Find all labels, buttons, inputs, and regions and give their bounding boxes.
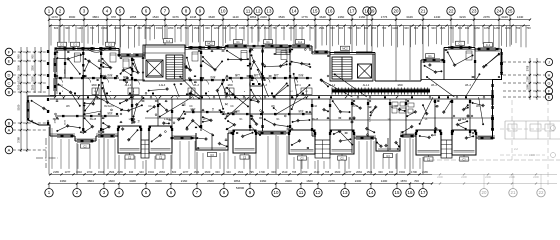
svg-text:1800: 1800 xyxy=(91,84,97,87)
svg-text:B: B xyxy=(8,121,11,126)
svg-text:1200: 1200 xyxy=(55,118,57,124)
svg-text:WL-3: WL-3 xyxy=(431,84,437,87)
svg-text:54800: 54800 xyxy=(236,186,245,190)
svg-text:2160: 2160 xyxy=(181,179,188,183)
svg-text:WC: WC xyxy=(476,106,480,108)
svg-text:23: 23 xyxy=(472,9,477,14)
svg-text:3468: 3468 xyxy=(129,179,136,183)
svg-text:1500: 1500 xyxy=(65,68,67,74)
svg-text:11: 11 xyxy=(246,9,251,14)
svg-text:1584: 1584 xyxy=(101,26,107,30)
svg-text:3300: 3300 xyxy=(32,65,35,71)
svg-text:2400: 2400 xyxy=(485,175,491,179)
svg-text:1500: 1500 xyxy=(32,76,35,82)
svg-text:700: 700 xyxy=(382,26,387,30)
svg-text:WL-3: WL-3 xyxy=(261,84,267,87)
svg-text:14: 14 xyxy=(292,9,297,14)
svg-text:2160: 2160 xyxy=(359,15,366,19)
svg-text:3460: 3460 xyxy=(260,179,267,183)
svg-text:21: 21 xyxy=(511,190,516,195)
svg-text:600: 600 xyxy=(378,170,383,174)
svg-text:1200: 1200 xyxy=(370,116,372,122)
svg-text:700: 700 xyxy=(257,26,262,30)
svg-text:2663: 2663 xyxy=(159,170,165,174)
svg-text:1470: 1470 xyxy=(51,15,58,19)
svg-text:C-1: C-1 xyxy=(166,40,171,43)
svg-text:12: 12 xyxy=(256,9,261,14)
svg-text:C-1: C-1 xyxy=(73,44,78,47)
svg-text:J: J xyxy=(548,61,550,65)
svg-text:1504: 1504 xyxy=(114,26,120,30)
svg-text:1377: 1377 xyxy=(65,170,71,174)
svg-text:1200: 1200 xyxy=(101,109,103,115)
svg-text:1504: 1504 xyxy=(109,170,115,174)
svg-text:2660: 2660 xyxy=(207,179,214,183)
svg-text:WL-3: WL-3 xyxy=(465,84,471,87)
svg-text:15: 15 xyxy=(313,9,318,14)
svg-text:2400: 2400 xyxy=(533,175,539,179)
svg-text:940: 940 xyxy=(129,170,134,174)
svg-text:CC: CC xyxy=(148,106,152,108)
svg-text:3864: 3864 xyxy=(92,15,99,19)
svg-text:3864: 3864 xyxy=(234,179,241,183)
svg-text:1377: 1377 xyxy=(346,170,352,174)
svg-text:1600: 1600 xyxy=(108,179,115,183)
svg-text:1500: 1500 xyxy=(290,66,292,72)
svg-text:1504: 1504 xyxy=(194,26,200,30)
svg-text:1504: 1504 xyxy=(399,170,405,174)
svg-text:900: 900 xyxy=(281,26,286,30)
svg-text:2400: 2400 xyxy=(437,175,443,179)
svg-text:2400: 2400 xyxy=(285,179,292,183)
svg-text:24: 24 xyxy=(497,9,502,14)
svg-text:1870: 1870 xyxy=(400,179,407,183)
svg-text:1700: 1700 xyxy=(87,170,93,174)
svg-text:1584: 1584 xyxy=(239,26,245,30)
svg-text:1560: 1560 xyxy=(526,84,529,90)
svg-text:2663: 2663 xyxy=(335,170,341,174)
svg-text:3600: 3600 xyxy=(69,15,76,19)
svg-text:PE-25: PE-25 xyxy=(349,119,356,121)
svg-text:3864: 3864 xyxy=(250,15,257,19)
svg-text:17: 17 xyxy=(421,190,426,195)
svg-text:客厅: 客厅 xyxy=(254,73,260,77)
svg-text:1776: 1776 xyxy=(381,15,388,19)
svg-text:2400: 2400 xyxy=(355,179,362,183)
svg-text:3300: 3300 xyxy=(16,65,20,71)
svg-text:1-AL2: 1-AL2 xyxy=(164,118,171,121)
svg-text:MC2: MC2 xyxy=(342,48,348,51)
svg-text:1140: 1140 xyxy=(77,26,83,30)
svg-text:840: 840 xyxy=(137,26,142,30)
svg-text:卧室: 卧室 xyxy=(298,73,304,77)
svg-text:客厅: 客厅 xyxy=(235,73,241,77)
svg-text:CC: CC xyxy=(189,106,193,108)
svg-text:3460: 3460 xyxy=(60,179,67,183)
svg-text:1504: 1504 xyxy=(156,26,162,30)
svg-text:21: 21 xyxy=(421,9,426,14)
svg-text:2868: 2868 xyxy=(130,15,137,19)
svg-text:C-2: C-2 xyxy=(60,44,65,47)
svg-text:2663: 2663 xyxy=(205,170,211,174)
svg-text:1504: 1504 xyxy=(367,170,373,174)
svg-text:A: A xyxy=(8,148,11,153)
svg-text:3648: 3648 xyxy=(208,15,215,19)
svg-text:450: 450 xyxy=(372,26,377,30)
svg-text:13: 13 xyxy=(343,190,348,195)
svg-text:WC: WC xyxy=(271,106,275,108)
svg-text:CC: CC xyxy=(394,106,398,108)
svg-text:11: 11 xyxy=(299,190,304,195)
svg-text:750: 750 xyxy=(347,26,352,30)
svg-text:AL1-2: AL1-2 xyxy=(363,84,370,87)
svg-text:940: 940 xyxy=(226,170,231,174)
svg-text:15: 15 xyxy=(395,190,400,195)
svg-text:2400: 2400 xyxy=(461,175,467,179)
svg-text:14: 14 xyxy=(369,190,374,195)
svg-text:厨房: 厨房 xyxy=(298,109,304,113)
svg-text:D: D xyxy=(8,73,11,78)
svg-text:1504: 1504 xyxy=(238,170,244,174)
svg-text:1610: 1610 xyxy=(282,170,288,174)
svg-text:2100: 2100 xyxy=(290,110,292,116)
svg-text:AP-1: AP-1 xyxy=(57,84,63,87)
svg-text:600: 600 xyxy=(414,26,419,30)
svg-text:A: A xyxy=(8,128,11,133)
svg-text:3648: 3648 xyxy=(319,15,326,19)
svg-text:900: 900 xyxy=(465,26,470,30)
svg-text:700: 700 xyxy=(526,26,531,30)
svg-text:2100: 2100 xyxy=(250,62,252,68)
svg-text:E: E xyxy=(8,59,11,64)
svg-text:1260: 1260 xyxy=(505,26,511,30)
svg-text:厨房: 厨房 xyxy=(107,111,113,115)
svg-text:795: 795 xyxy=(292,170,297,174)
svg-text:1540: 1540 xyxy=(152,15,159,19)
svg-text:1700: 1700 xyxy=(259,170,265,174)
svg-text:卧室: 卧室 xyxy=(210,75,216,79)
svg-text:1260: 1260 xyxy=(214,26,220,30)
svg-text:940: 940 xyxy=(139,170,144,174)
svg-text:2165: 2165 xyxy=(117,170,123,174)
svg-text:C-2: C-2 xyxy=(298,41,303,44)
svg-text:C: C xyxy=(8,81,11,86)
svg-text:22: 22 xyxy=(539,190,544,195)
svg-text:AL1-2: AL1-2 xyxy=(125,84,132,87)
svg-text:900: 900 xyxy=(65,26,70,30)
svg-text:600: 600 xyxy=(172,170,177,174)
svg-text:1700: 1700 xyxy=(411,170,417,174)
svg-text:1504: 1504 xyxy=(319,26,325,30)
svg-text:2400: 2400 xyxy=(509,175,515,179)
svg-text:G: G xyxy=(548,82,551,86)
svg-text:2160: 2160 xyxy=(526,76,529,82)
svg-text:600: 600 xyxy=(271,170,276,174)
svg-text:940: 940 xyxy=(389,170,394,174)
svg-text:900: 900 xyxy=(339,26,344,30)
svg-text:600: 600 xyxy=(215,170,220,174)
svg-text:700: 700 xyxy=(184,26,189,30)
svg-text:1500: 1500 xyxy=(101,72,103,78)
svg-text:BV-3x2.5: BV-3x2.5 xyxy=(104,106,114,108)
svg-text:2160: 2160 xyxy=(16,84,20,90)
svg-text:25: 25 xyxy=(508,9,513,14)
svg-text:1:100: 1:100 xyxy=(529,153,536,157)
svg-text:1377: 1377 xyxy=(183,170,189,174)
svg-text:1500: 1500 xyxy=(16,76,20,82)
svg-text:PC16: PC16 xyxy=(311,106,317,108)
svg-text:1050: 1050 xyxy=(168,26,174,30)
svg-text:PC16: PC16 xyxy=(352,106,358,108)
svg-text:600: 600 xyxy=(330,26,335,30)
svg-text:1610: 1610 xyxy=(314,170,320,174)
svg-text:1440: 1440 xyxy=(517,15,524,19)
svg-text:WC: WC xyxy=(66,106,70,108)
svg-text:12: 12 xyxy=(316,190,321,195)
svg-text:1504: 1504 xyxy=(148,170,154,174)
svg-text:3546: 3546 xyxy=(278,15,285,19)
svg-text:10: 10 xyxy=(221,9,226,14)
svg-text:卧室: 卧室 xyxy=(107,73,113,77)
svg-text:C-2: C-2 xyxy=(108,44,113,47)
svg-text:900: 900 xyxy=(32,54,35,59)
svg-text:10: 10 xyxy=(274,190,279,195)
svg-text:2100: 2100 xyxy=(185,62,187,68)
svg-text:19: 19 xyxy=(370,9,375,14)
svg-text:20: 20 xyxy=(394,9,399,14)
svg-text:900: 900 xyxy=(16,54,20,59)
svg-text:2400: 2400 xyxy=(155,179,162,183)
svg-text:22: 22 xyxy=(449,9,454,14)
svg-text:AP-1: AP-1 xyxy=(295,84,301,87)
svg-text:2100: 2100 xyxy=(65,119,67,125)
svg-text:1260: 1260 xyxy=(494,26,500,30)
svg-text:3476: 3476 xyxy=(172,15,179,19)
svg-text:厨房: 厨房 xyxy=(235,109,241,113)
svg-text:客厅: 客厅 xyxy=(123,75,129,79)
svg-text:B: B xyxy=(8,90,11,95)
svg-text:1600: 1600 xyxy=(306,179,313,183)
svg-text:3768: 3768 xyxy=(526,65,529,71)
svg-text:E: E xyxy=(548,96,551,100)
svg-text:AL1-2: AL1-2 xyxy=(329,84,336,87)
svg-text:H: H xyxy=(548,74,551,78)
svg-text:3864: 3864 xyxy=(87,179,94,183)
svg-text:1648: 1648 xyxy=(190,15,197,19)
svg-text:600: 600 xyxy=(54,26,59,30)
svg-text:1400: 1400 xyxy=(381,179,388,183)
svg-text:2460: 2460 xyxy=(260,15,267,19)
svg-text:MC2: MC2 xyxy=(207,43,213,46)
svg-text:978: 978 xyxy=(111,15,116,19)
svg-text:1140: 1140 xyxy=(232,15,239,19)
svg-text:CC: CC xyxy=(230,106,234,108)
svg-text:1584: 1584 xyxy=(440,26,446,30)
svg-text:2160: 2160 xyxy=(32,84,35,90)
svg-text:750: 750 xyxy=(449,26,454,30)
svg-text:PE-25: PE-25 xyxy=(90,119,97,121)
svg-text:5160: 5160 xyxy=(16,104,20,110)
svg-text:3768: 3768 xyxy=(16,137,20,143)
svg-text:20: 20 xyxy=(482,190,487,195)
svg-text:1440: 1440 xyxy=(434,15,441,19)
svg-text:700: 700 xyxy=(414,179,419,183)
svg-text:900: 900 xyxy=(404,26,409,30)
svg-text:PE-25: PE-25 xyxy=(312,119,319,121)
svg-text:600: 600 xyxy=(205,26,210,30)
svg-text:3449: 3449 xyxy=(406,15,413,19)
svg-text:3449: 3449 xyxy=(501,15,508,19)
svg-text:2076: 2076 xyxy=(483,15,490,19)
svg-text:客厅: 客厅 xyxy=(274,73,280,77)
svg-text:1500: 1500 xyxy=(55,57,57,63)
svg-text:2-AL3: 2-AL3 xyxy=(159,84,166,87)
svg-text:600: 600 xyxy=(356,26,361,30)
svg-text:2663: 2663 xyxy=(356,170,362,174)
svg-text:900: 900 xyxy=(431,26,436,30)
svg-text:3216: 3216 xyxy=(459,15,466,19)
svg-text:1-AL2: 1-AL2 xyxy=(460,118,467,121)
svg-text:16: 16 xyxy=(408,190,413,195)
svg-text:1800: 1800 xyxy=(227,84,233,87)
svg-text:1700: 1700 xyxy=(302,170,308,174)
svg-text:700: 700 xyxy=(516,26,521,30)
svg-text:2460: 2460 xyxy=(338,15,345,19)
svg-text:2165: 2165 xyxy=(53,170,59,174)
svg-text:450: 450 xyxy=(230,26,235,30)
svg-text:2-2: 2-2 xyxy=(514,147,518,151)
svg-text:1776: 1776 xyxy=(301,15,308,19)
svg-text:2076: 2076 xyxy=(328,179,335,183)
svg-text:WC: WC xyxy=(435,106,439,108)
svg-text:1504: 1504 xyxy=(98,170,104,174)
svg-text:C-1: C-1 xyxy=(486,44,491,47)
svg-text:16: 16 xyxy=(328,9,333,14)
svg-text:WL-3: WL-3 xyxy=(193,84,199,87)
svg-text:1800: 1800 xyxy=(397,84,403,87)
svg-text:795: 795 xyxy=(325,170,330,174)
svg-text:750: 750 xyxy=(272,26,277,30)
svg-text:17: 17 xyxy=(350,9,355,14)
svg-text:700: 700 xyxy=(127,26,132,30)
svg-text:13: 13 xyxy=(267,9,272,14)
svg-text:600: 600 xyxy=(458,26,463,30)
